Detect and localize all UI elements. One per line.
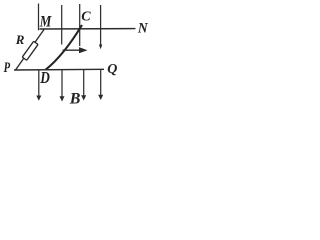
field line B4 bottom segment with arrow <box>98 70 103 100</box>
svg-text:M: M <box>39 14 52 31</box>
resistor R body <box>22 41 38 60</box>
field line B3 bottom segment with arrow <box>81 70 86 101</box>
svg-text:C: C <box>81 10 91 25</box>
svg-text:D: D <box>39 68 49 87</box>
velocity arrow on rod <box>63 47 88 53</box>
field line B2 bottom segment with arrow <box>60 70 65 102</box>
field line B2 top segment <box>61 5 63 45</box>
svg-text:R: R <box>15 32 25 47</box>
field line B1 top segment <box>38 4 40 31</box>
rod CD <box>46 25 83 70</box>
svg-text:N: N <box>137 20 149 36</box>
field line B4 top segment <box>99 5 102 49</box>
field line B1 bottom segment with arrow <box>36 70 41 101</box>
bottom rail PQ <box>14 68 104 71</box>
top rail MN <box>40 28 136 30</box>
svg-text:B: B <box>69 91 81 108</box>
field line B3 top segment <box>79 4 81 46</box>
svg-text:Q: Q <box>107 62 117 77</box>
resistor R lead wire P-M <box>16 30 45 71</box>
svg-text:P: P <box>4 60 11 76</box>
